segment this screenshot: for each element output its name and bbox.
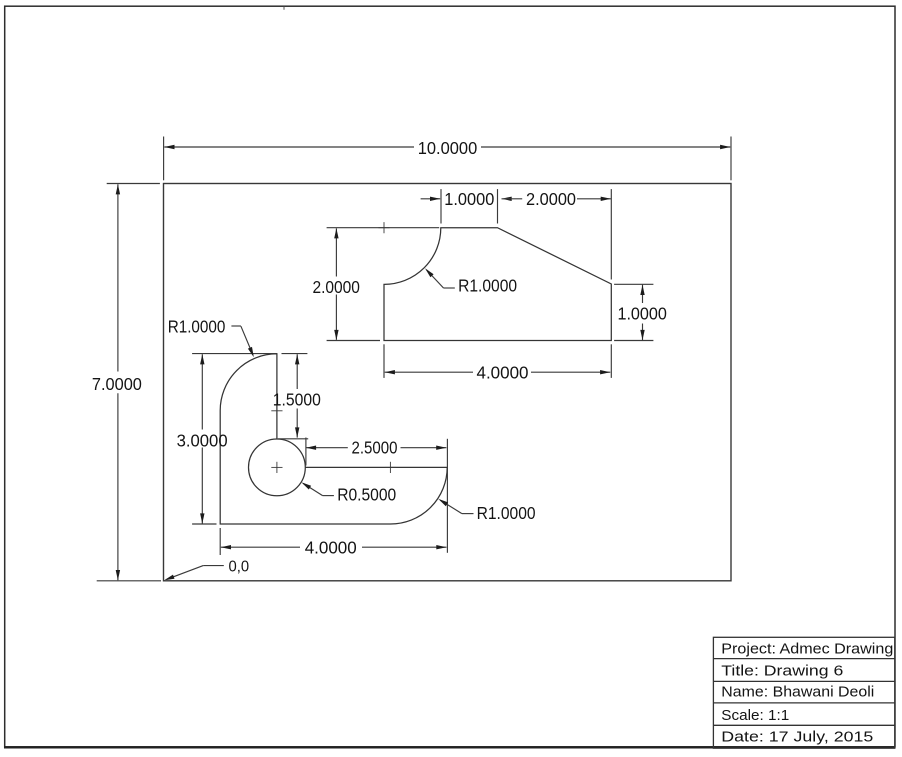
- svg-text:R1.0000: R1.0000: [458, 276, 517, 296]
- svg-text:3.0000: 3.0000: [177, 430, 228, 450]
- svg-text:R0.5000: R0.5000: [337, 484, 396, 504]
- svg-text:Project: Admec Drawing: Project: Admec Drawing: [721, 642, 893, 658]
- svg-text:1.0000: 1.0000: [617, 304, 667, 324]
- svg-text:Scale: 1:1: Scale: 1:1: [721, 708, 789, 724]
- svg-text:0,0: 0,0: [229, 558, 250, 575]
- svg-text:Date: 17 July, 2015: Date: 17 July, 2015: [721, 729, 873, 745]
- svg-text:Name: Bhawani Deoli: Name: Bhawani Deoli: [721, 685, 874, 701]
- svg-text:1.5000: 1.5000: [273, 390, 321, 410]
- svg-text:1.0000: 1.0000: [444, 189, 494, 209]
- svg-text:4.0000: 4.0000: [305, 537, 357, 557]
- svg-text:2.5000: 2.5000: [352, 438, 398, 458]
- svg-text:R1.0000: R1.0000: [168, 316, 226, 336]
- svg-text:2.0000: 2.0000: [312, 277, 360, 297]
- svg-text:10.0000: 10.0000: [418, 138, 478, 158]
- svg-text:7.0000: 7.0000: [92, 374, 142, 394]
- svg-text:2.0000: 2.0000: [526, 189, 576, 209]
- svg-text:Title: Drawing 6: Title: Drawing 6: [721, 663, 843, 679]
- svg-text:R1.0000: R1.0000: [477, 503, 536, 523]
- svg-text:4.0000: 4.0000: [477, 362, 529, 382]
